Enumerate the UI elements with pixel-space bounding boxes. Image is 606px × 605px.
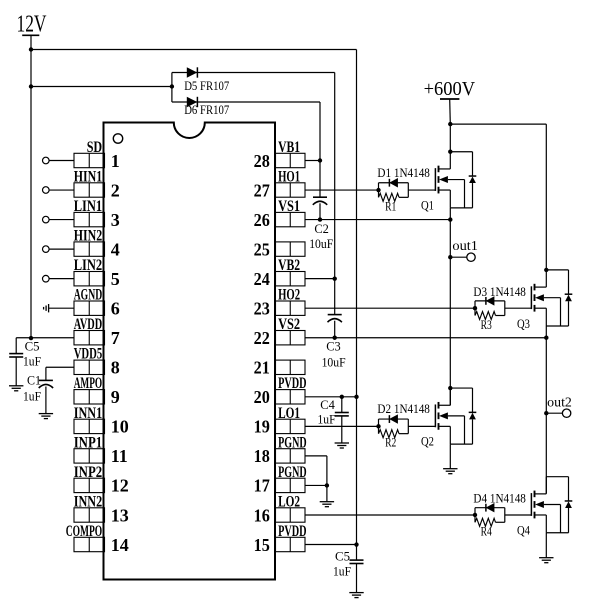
capacitor C3 [328,315,342,323]
resistor R1 / diode D1 network [376,179,408,202]
label D5 [184,78,229,93]
ground C1 [39,414,53,419]
svg-text:1uF: 1uF [23,353,41,368]
label C5 bottom value [333,564,351,579]
wire R4 to Q4 gate [505,514,532,516]
ground Q2 [443,469,457,474]
wire PGND pin18 [305,456,327,486]
IC pin 25 [254,239,305,259]
transistor Q2 [435,388,476,444]
capacitor C5 (bottom) [350,560,364,563]
wire Q4 source to ground [545,533,547,558]
svg-text:D1 1N4148: D1 1N4148 [377,165,430,180]
label R2 [385,435,396,450]
label C2 value [309,236,333,251]
svg-text:AGND: AGND [74,287,103,304]
svg-text:VS2: VS2 [278,316,300,333]
svg-text:INN1: INN1 [74,405,103,422]
svg-text:22: 22 [254,328,270,348]
label Q1 [421,198,434,213]
IC pin 19 LO1 [254,405,305,437]
svg-text:C5: C5 [25,338,40,353]
wire HO1 pin27 [305,189,379,191]
IC pin 18 PGND [254,434,307,466]
node AVDD junction [29,336,33,340]
wire LO1 pin19 [305,425,379,427]
power +600V bar [440,98,459,100]
svg-text:out2: out2 [547,395,572,410]
wire C3 bottom [333,321,337,340]
IC pin 16 LO2 [254,493,305,525]
IC pin 28 VB1 [254,139,305,171]
label D2 [377,401,430,416]
wire D6 cathode to VB1 line [319,102,321,197]
transistor Q3 [531,270,572,326]
wire LO2 pin16 [305,514,475,516]
wire C5 bottom stem [356,545,358,561]
IC pin 26 VS1 [254,198,305,230]
svg-text:13: 13 [111,505,129,525]
ground Q4 [539,558,553,563]
node out2 [544,411,548,415]
IC pin 11 INP1 [74,434,128,466]
svg-text:D3 1N4148: D3 1N4148 [473,284,526,299]
node Q2 drain branch [448,386,452,390]
wire VS2 pin22 [305,337,546,339]
AGND earth symbol [44,304,74,312]
wire 12V top rail [31,49,357,51]
svg-text:1: 1 [111,151,120,171]
transistor Q1 [435,152,476,208]
svg-text:23: 23 [254,299,270,319]
capacitor C5 (left) [9,354,23,357]
label Q3 [517,316,530,331]
IC pin 21 [254,358,305,378]
wire PGND pin17 [305,483,329,487]
svg-text:11: 11 [111,446,128,466]
IC pin 3 LIN1 [74,198,120,230]
wire D5 cathode to VB2 line [334,73,336,315]
wire PVDD pin20 [305,395,359,399]
IC pin 7 AVDD [74,316,120,348]
svg-text:10uF: 10uF [322,355,346,370]
svg-text:21: 21 [254,358,270,378]
node Q1 drain branch [448,150,452,154]
wire out1 [450,256,467,258]
capacitor C1 [39,380,53,388]
wire VB1 pin28 [305,158,322,162]
svg-text:R1: R1 [385,199,396,214]
transistor Q4 [531,477,572,533]
label C1 value [23,389,41,404]
svg-text:1uF: 1uF [333,564,351,579]
terminal pin 1 [43,157,75,164]
svg-text:D6 FR107: D6 FR107 [184,102,229,117]
IC pin 2 HIN1 [74,168,120,200]
capacitor C4 [335,413,349,416]
wire HO2 pin23 [305,307,475,309]
svg-text:16: 16 [254,505,270,525]
wire R2 to Q2 gate [408,425,435,427]
svg-text:C2: C2 [314,221,329,236]
svg-text:27: 27 [254,180,270,200]
wire Q1 source down [449,208,451,406]
IC pin 23 HO2 [254,287,305,319]
svg-text:PGND: PGND [278,434,307,451]
svg-text:LIN1: LIN1 [74,198,103,215]
IC pin 13 INN2 [74,493,129,525]
svg-text:INP2: INP2 [74,464,103,481]
svg-text:COMPO: COMPO [66,523,103,540]
svg-text:C4: C4 [320,397,335,412]
svg-text:28: 28 [254,151,270,171]
terminal pin 5 [43,275,75,282]
svg-text:VB1: VB1 [278,139,300,156]
svg-text:LIN2: LIN2 [74,257,103,274]
node 12V diode branch [29,84,33,88]
svg-text:Q3: Q3 [517,316,530,331]
node VS2 at Q3 source [544,336,548,340]
svg-text:10: 10 [111,417,129,437]
terminal pin 2 [43,187,75,194]
IC pin 8 VDD5 [74,346,120,378]
svg-text:LO2: LO2 [278,493,300,510]
wire VB2 pin24 [305,276,337,280]
wire C2 bottom [318,203,322,221]
wire 12V to diodes [31,86,172,88]
svg-text:HO2: HO2 [278,287,300,304]
label C2 [314,221,329,236]
label C1 [27,372,41,387]
svg-text:C1: C1 [27,372,41,387]
svg-text:24: 24 [254,269,270,289]
wire Q1 drain feed [449,124,451,152]
svg-text:15: 15 [254,535,270,555]
IC pin 1 SD [74,139,120,171]
IC pin 27 HO1 [254,168,305,200]
svg-text:HO1: HO1 [278,168,300,185]
label D1 [377,165,430,180]
resistor R4 / diode D4 network [473,503,505,526]
IC pin 10 INN1 [74,405,129,437]
wire C1 to ground [45,387,47,414]
terminal out1 [467,253,475,261]
IC pin 20 PVDD [254,375,307,407]
terminal out2 [562,409,570,417]
power +600V label [424,78,476,100]
wire R3 to Q3 gate [505,307,532,309]
label C5 bottom [335,548,350,563]
svg-text:HIN2: HIN2 [74,228,103,245]
svg-text:26: 26 [254,210,270,230]
svg-text:LO1: LO1 [278,405,300,422]
wire VS1 pin26 [305,219,450,221]
IC pin 17 PGND [254,464,307,496]
wire C1 stem [45,367,47,380]
svg-text:AVDD: AVDD [74,316,103,333]
wire C5 to ground [15,357,17,386]
wire C5 stem [15,338,17,354]
wire +600V stem [448,99,452,126]
label C4 value [318,412,336,427]
label Q4 [517,523,530,538]
label C3 value [322,355,346,370]
ground C5 bottom [349,593,363,598]
resistor R3 / diode D3 network [473,297,505,320]
terminal pin 3 [43,216,75,223]
wire C5 bottom to ground [356,564,358,593]
label C4 [320,397,335,412]
label C5 left [25,338,40,353]
label D3 [473,284,526,299]
node out1 [448,255,452,259]
label out1 [452,238,478,253]
svg-text:5: 5 [111,269,120,289]
wire 12V stem [30,35,32,338]
label D6 [184,102,229,117]
IC pin 14 COMPO [66,523,129,555]
svg-text:R4: R4 [481,524,493,539]
wire Q3 drain feed [545,124,547,270]
svg-text:7: 7 [111,328,120,348]
label out2 [547,395,572,410]
svg-text:R2: R2 [385,435,396,450]
node 12V rail junction [29,47,33,51]
wire Q2 source to ground [449,444,451,469]
svg-text:1uF: 1uF [23,389,41,404]
IC U1 body [104,123,276,580]
IC pin1 indicator circle [113,134,122,143]
svg-text:3: 3 [111,210,120,230]
svg-text:AMPO: AMPO [74,375,103,392]
IC pin 22 VS2 [254,316,305,348]
label Q2 [421,434,434,449]
svg-text:17: 17 [254,476,270,496]
label C5 value [23,353,41,368]
power 12V label [17,12,47,38]
wire VDD5 pin8 [46,366,74,368]
svg-text:PVDD: PVDD [278,523,307,540]
svg-text:HIN1: HIN1 [74,168,103,185]
capacitor C2 [313,197,327,205]
svg-text:INN2: INN2 [74,493,103,510]
svg-text:4: 4 [111,239,120,259]
svg-text:19: 19 [254,417,270,437]
svg-text:18: 18 [254,446,270,466]
IC pin 15 PVDD [254,523,307,555]
wire Q3 source down [545,326,547,493]
label R1 [385,199,396,214]
label D4 [473,490,526,505]
wire +600V rail to Q3 [450,123,546,125]
node VS1 at Q1 source [448,217,452,221]
svg-text:10uF: 10uF [309,236,333,251]
svg-text:Q4: Q4 [517,523,530,538]
wire out2 [546,412,562,414]
wire AVDD pin7 [16,337,74,339]
svg-text:SD: SD [87,139,103,156]
svg-text:out1: out1 [452,238,478,253]
svg-text:1uF: 1uF [318,412,336,427]
wire R1 to Q1 gate [408,189,435,191]
label R3 [481,317,492,332]
IC pin 12 INP2 [74,464,129,496]
svg-text:14: 14 [111,535,129,555]
svg-text:D2 1N4148: D2 1N4148 [377,401,430,416]
svg-text:2: 2 [111,180,120,200]
svg-text:VB2: VB2 [278,257,300,274]
svg-text:D5 FR107: D5 FR107 [184,78,229,93]
IC pin 4 HIN2 [74,228,120,260]
wire 12V rail vertical [356,50,358,545]
svg-text:PVDD: PVDD [278,375,307,392]
svg-text:Q1: Q1 [421,198,434,213]
ground C5 left [9,386,23,391]
svg-text:25: 25 [254,239,270,259]
IC pin 6 AGND [74,287,120,319]
wire C4 stem [341,397,343,413]
wire C4 to ground [341,416,343,443]
wire PVDD pin15 [305,542,359,546]
svg-text:9: 9 [111,387,120,407]
svg-text:D4 1N4148: D4 1N4148 [473,490,526,505]
power 12V bar [22,34,39,36]
node Q3 drain branch [544,268,548,272]
wire PGND to ground [326,485,328,501]
ground PGND [320,502,334,507]
ground C4 [335,443,349,448]
svg-text:VDD5: VDD5 [74,346,103,363]
svg-text:+600V: +600V [424,78,476,100]
wire diode anode vertical [170,73,174,103]
svg-text:12V: 12V [17,12,47,38]
terminal pin 4 [43,246,75,253]
resistor R2 / diode D2 network [376,415,408,438]
svg-text:C5: C5 [335,548,350,563]
svg-text:VS1: VS1 [278,198,300,215]
label R4 [481,524,493,539]
svg-text:12: 12 [111,476,129,496]
svg-text:8: 8 [111,358,120,378]
svg-text:INP1: INP1 [74,434,103,451]
IC pin 5 LIN2 [74,257,120,289]
label C3 [326,339,341,354]
diode D5 FR107 [172,67,335,77]
svg-text:20: 20 [254,387,270,407]
diode D6 FR107 [172,97,320,107]
svg-text:C3: C3 [326,339,341,354]
svg-text:PGND: PGND [278,464,307,481]
svg-text:6: 6 [111,299,120,319]
svg-text:R3: R3 [481,317,492,332]
IC pin 9 AMPO [74,375,120,407]
IC pin 24 VB2 [254,257,305,289]
svg-text:Q2: Q2 [421,434,434,449]
